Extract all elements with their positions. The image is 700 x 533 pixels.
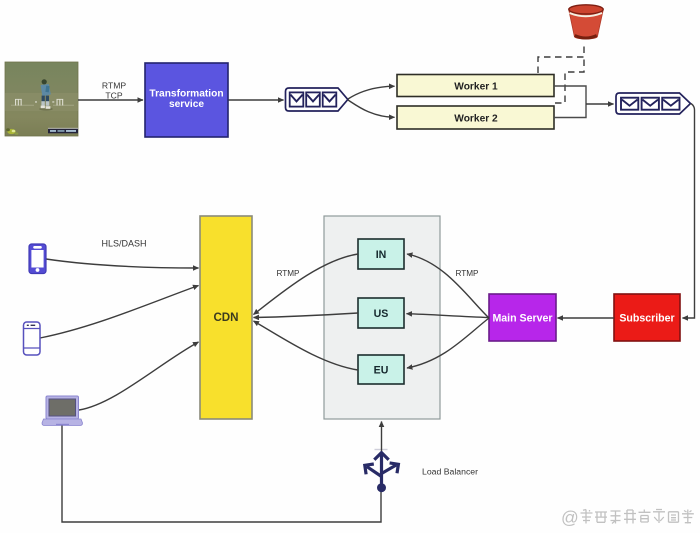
wire main server to IN [407,254,489,318]
svg-text:Load Balancer: Load Balancer [422,467,478,477]
bucket [569,5,603,39]
wire main server to EU [407,318,489,368]
svg-text:service: service [169,99,204,110]
svg-text:@: @ [561,508,579,528]
wire subscriber to main server [558,317,615,319]
box transformation service [145,63,228,137]
box main server [489,294,556,341]
box worker2 [397,106,554,129]
phone 1 [29,244,46,274]
wire EU to CDN [254,321,359,370]
queue Q2 [616,93,691,114]
wire source to transformation [78,99,143,101]
dashed wire bucket to worker2 [555,58,584,103]
label RTMP TCP [102,81,126,101]
box US [358,298,404,328]
svg-text:RTMP: RTMP [102,81,126,91]
wire load balancer to region cluster [381,422,383,452]
watermark [561,508,694,528]
wire laptop to bottom bus [62,426,381,523]
wire worker merge [554,86,586,118]
wire queue Q2 to subscriber [683,104,695,319]
wire phone1 to CDN [46,259,199,268]
box worker1 [397,75,554,97]
wire transformation to queue Q1 [229,99,284,101]
wire US to CDN [254,313,359,318]
box EU [358,355,404,384]
svg-text:HLS/DASH: HLS/DASH [101,239,146,249]
laptop [42,396,83,426]
phone 2 [24,322,41,355]
svg-text:RTMP: RTMP [455,269,479,278]
svg-text:US: US [374,308,389,320]
svg-text:CDN: CDN [213,311,238,324]
box region cluster [324,216,440,419]
wire queue Q1 to worker2 [348,100,395,117]
svg-text:TCP: TCP [105,91,122,101]
dashed wire bucket to worker1 [538,42,584,73]
box subscriber [614,294,680,341]
svg-text:Worker 1: Worker 1 [454,82,498,93]
load balancer [365,449,399,492]
wire queue Q1 to worker1 [348,86,395,99]
svg-text:IN: IN [376,249,387,261]
queue Q1 [286,88,348,111]
wire merge to queue Q2 [586,103,614,105]
source video thumbnail [5,62,78,136]
box IN [358,239,404,269]
svg-text:EU: EU [374,365,389,377]
wire IN to CDN [254,254,359,315]
svg-text:Worker 2: Worker 2 [454,114,498,125]
svg-text:Main Server: Main Server [492,313,552,325]
wire phone2 to CDN [40,286,199,339]
wire main server to US [407,314,490,318]
wire laptop to CDN [79,342,199,410]
svg-text:Subscriber: Subscriber [619,313,674,325]
svg-text:RTMP: RTMP [276,269,300,278]
svg-text:Transformation: Transformation [149,89,223,100]
box CDN [200,216,252,419]
